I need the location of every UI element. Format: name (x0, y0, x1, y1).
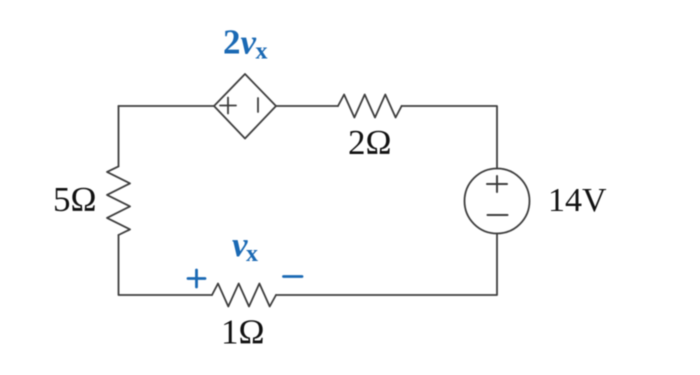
voltage source minus sign (488, 214, 508, 216)
minus polarity mark for vx (284, 275, 303, 278)
wire top-left horizontal (119, 105, 215, 107)
voltage source plus sign (487, 176, 507, 192)
wire source bottom to bottom-right corner to 1-ohm (276, 234, 497, 296)
plus polarity mark for vx (188, 270, 205, 287)
wire diamond to 2-ohm resistor (276, 105, 338, 107)
dependent source plus sign (220, 98, 236, 114)
wire 2-ohm to top-right corner and down to source (402, 106, 497, 169)
svg-text:2Ω: 2Ω (348, 123, 392, 162)
svg-text:vx: vx (232, 225, 258, 267)
svg-text:14V: 14V (548, 182, 607, 219)
dependent source minus bar (257, 98, 259, 112)
voltage source V1 circle (465, 169, 530, 234)
svg-text:1Ω: 1Ω (221, 313, 265, 352)
resistor R3 1-ohm zigzag (212, 284, 276, 307)
svg-text:2vx: 2vx (223, 23, 268, 65)
resistor R1 5-ohm zigzag (107, 166, 130, 235)
dependent source U1 diamond (214, 74, 276, 139)
resistor R2 2-ohm zigzag (338, 95, 402, 118)
wire bottom-left corner up to 5-ohm (119, 235, 213, 295)
svg-text:5Ω: 5Ω (53, 180, 97, 219)
wire 5-ohm top to top-left corner (118, 106, 120, 166)
